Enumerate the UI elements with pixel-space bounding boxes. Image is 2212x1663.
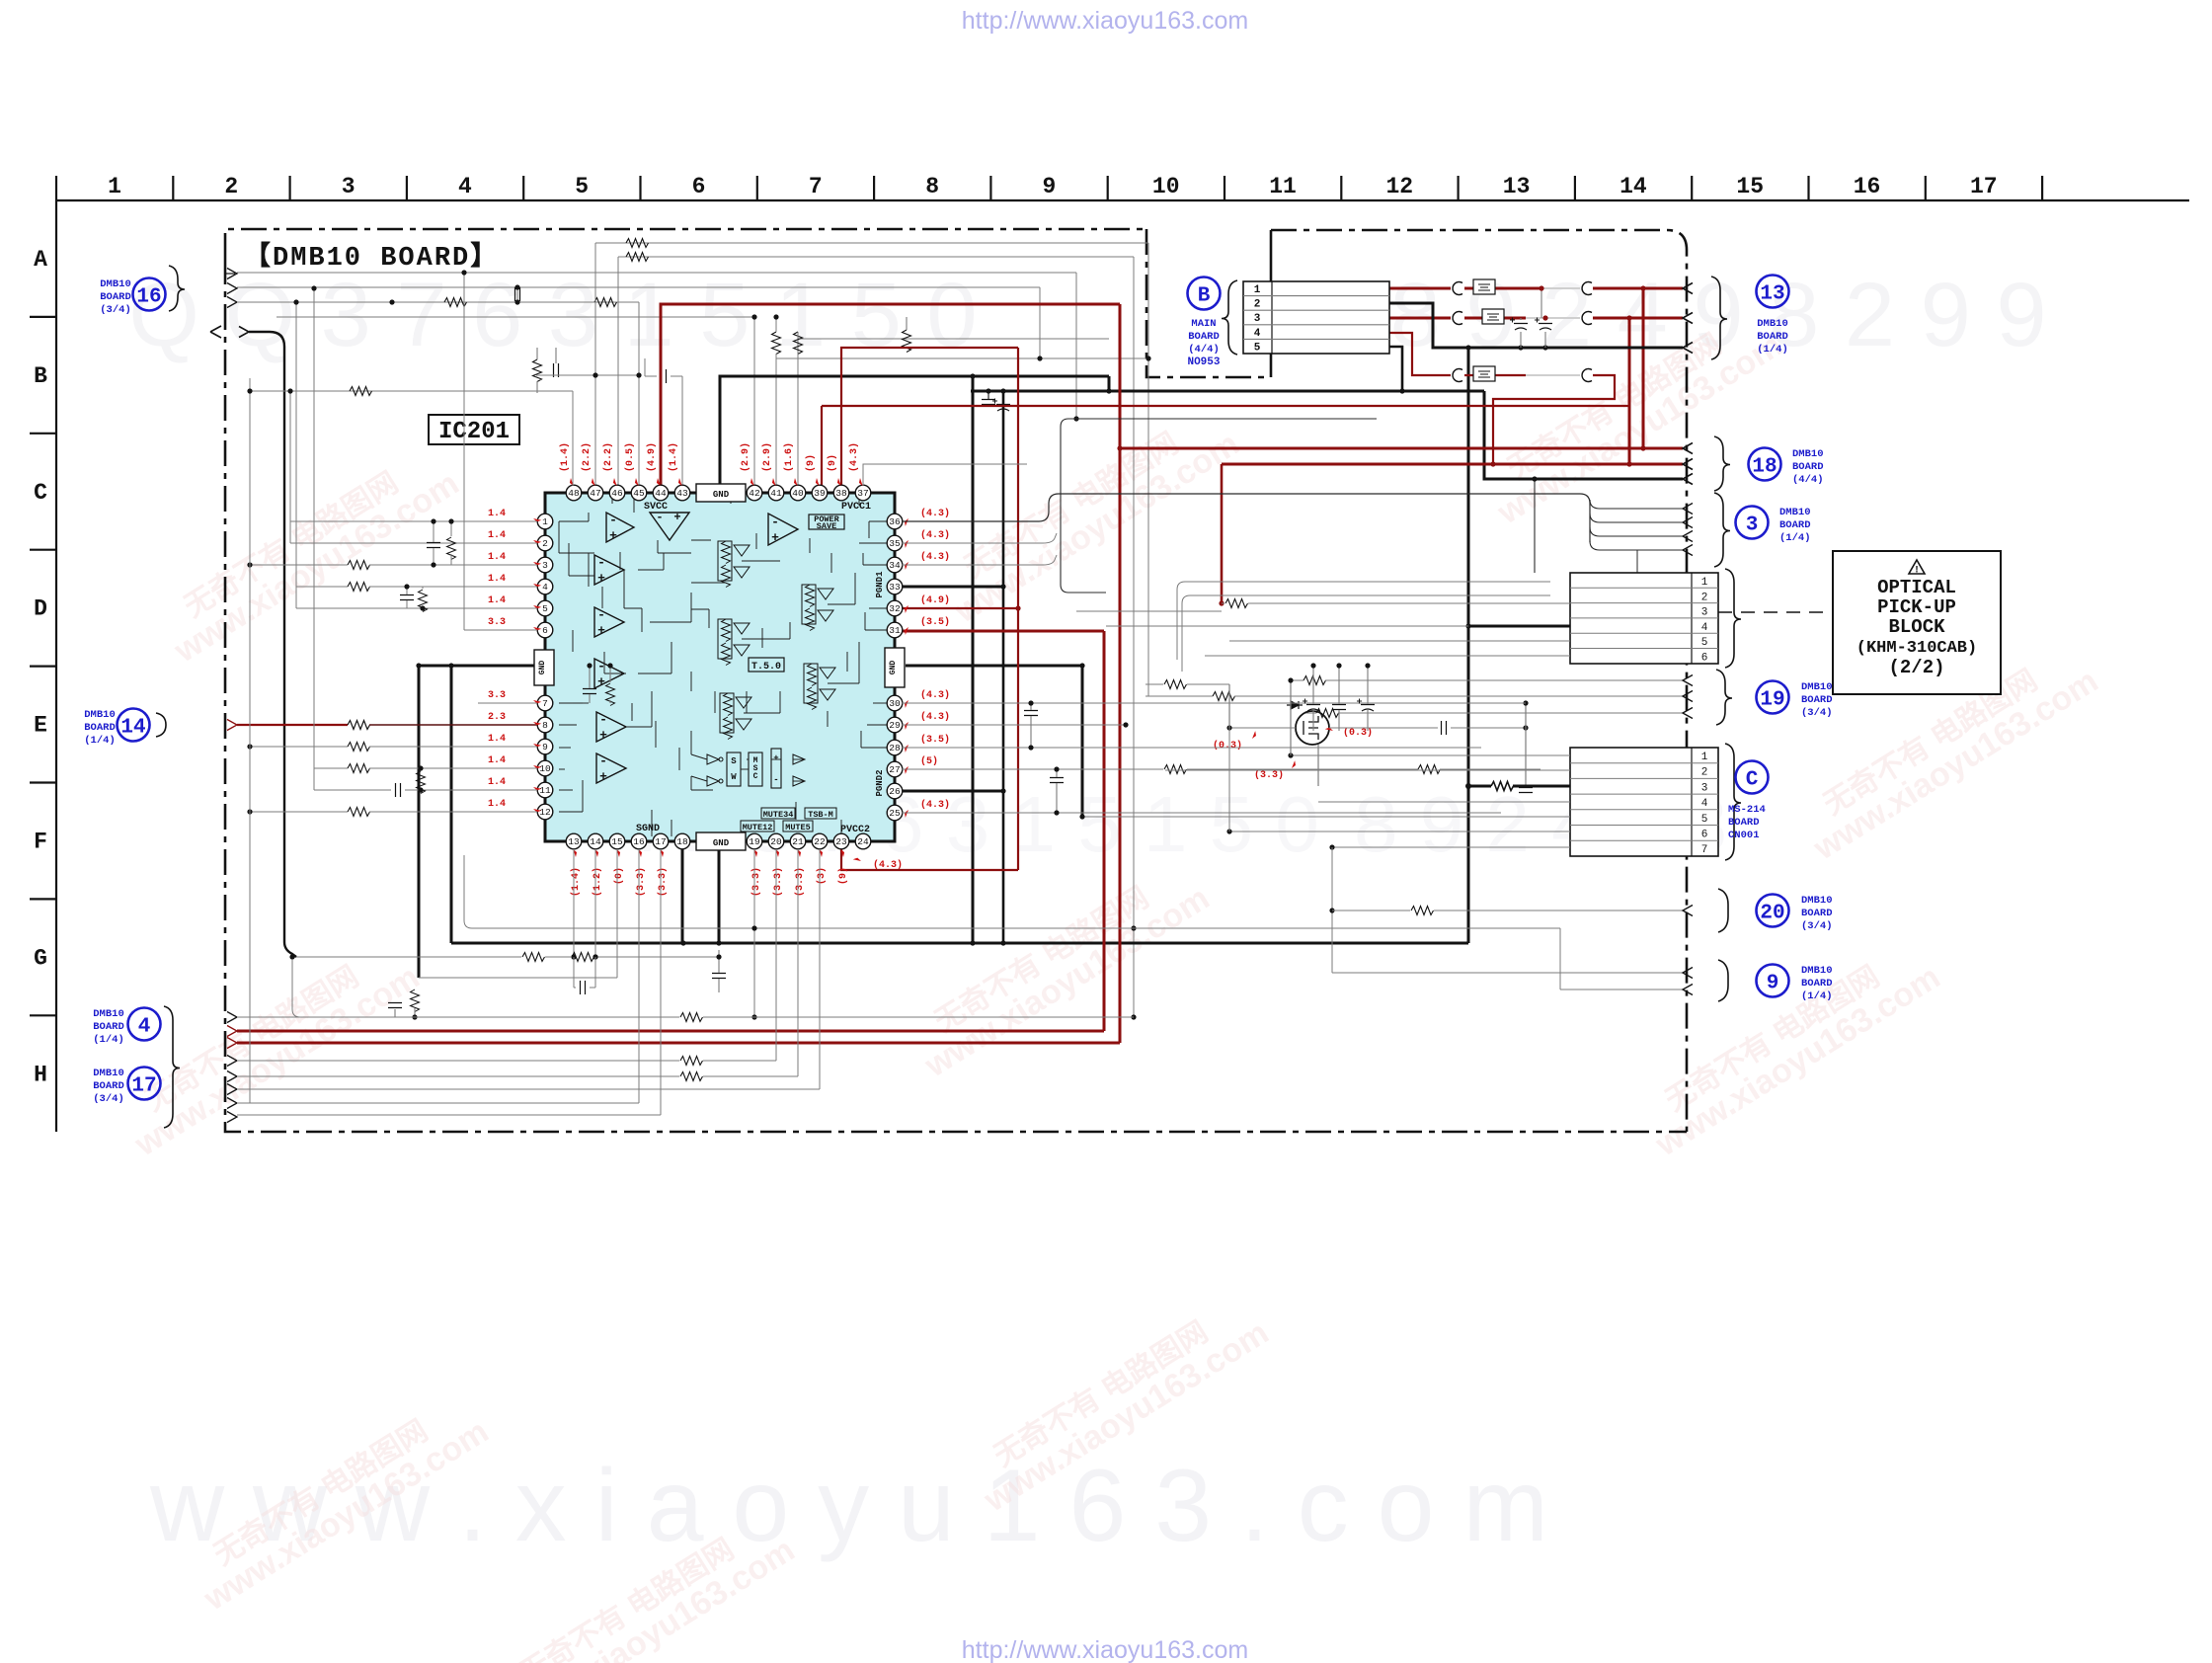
IC201 label box	[429, 415, 519, 444]
wire thick v1487 upper	[1467, 347, 1470, 350]
svg-text:http://www.xiaoyu163.com: http://www.xiaoyu163.com	[962, 1636, 1248, 1663]
svg-text:(4.3): (4.3)	[920, 799, 950, 811]
ferrite 13-2a	[1453, 312, 1462, 325]
gnd tab left	[534, 650, 554, 685]
svg-text:PICK-UP: PICK-UP	[1877, 596, 1956, 618]
svg-text:CN001: CN001	[1728, 830, 1760, 841]
svg-text:C: C	[34, 480, 47, 506]
svg-text:14: 14	[590, 836, 601, 847]
connector ref 4 circle	[128, 1008, 161, 1041]
wire bus8	[798, 338, 1109, 340]
svg-text:4: 4	[542, 582, 548, 593]
svg-text:17: 17	[1970, 174, 1998, 199]
svg-text:5: 5	[542, 603, 548, 614]
wire pin25	[902, 812, 1501, 814]
wire 14 entry	[227, 720, 237, 731]
svg-text:+: +	[597, 623, 605, 638]
svg-text:BOARD: BOARD	[1728, 817, 1760, 829]
svg-text:8: 8	[542, 720, 548, 731]
svg-text:GND: GND	[713, 838, 730, 848]
svg-text:http://www.xiaoyu163.com: http://www.xiaoyu163.com	[962, 7, 1248, 35]
wire v1561 thin	[1540, 288, 1542, 318]
svg-text:(3.3): (3.3)	[772, 867, 784, 897]
wire 7p row6	[1229, 831, 1570, 832]
wire col 294	[289, 391, 291, 543]
wire 19-1	[1291, 679, 1303, 681]
svg-text:39: 39	[814, 488, 826, 499]
svg-text:1.4: 1.4	[488, 734, 506, 745]
svg-text:20: 20	[1760, 903, 1784, 925]
wire red 14 line	[237, 724, 348, 726]
svg-text:-: -	[597, 607, 605, 622]
wire pin20 col	[775, 849, 777, 1061]
svg-text:BOARD: BOARD	[93, 1080, 124, 1092]
svg-text:2: 2	[542, 538, 548, 549]
svg-text:-: -	[609, 513, 617, 527]
wire pin4	[296, 586, 348, 588]
arrow 9	[1683, 968, 1693, 979]
svg-text:18: 18	[676, 836, 688, 847]
svg-text:(3/4): (3/4)	[100, 304, 131, 316]
svg-text:2: 2	[224, 174, 238, 199]
connector ref 18 brace	[1714, 436, 1730, 491]
connector ref 16 circle	[133, 278, 166, 311]
svg-text:29: 29	[889, 720, 901, 731]
wire top bus 4	[237, 286, 1040, 288]
svg-text:12: 12	[1385, 174, 1413, 199]
svg-text:A: A	[34, 247, 47, 273]
pin 9	[537, 739, 553, 754]
arrow 13-1	[1683, 283, 1693, 294]
wire thick v1503 18-bundle	[1484, 391, 1683, 479]
connector ref 19 brace	[1716, 670, 1732, 725]
svg-text:F: F	[34, 830, 47, 855]
pin 23	[833, 833, 849, 849]
svg-text:DMB10: DMB10	[1801, 965, 1833, 977]
arrow 20	[1683, 906, 1693, 916]
svg-text:(4.9): (4.9)	[646, 442, 658, 472]
svg-text:14: 14	[120, 717, 145, 740]
svg-text:+: +	[609, 528, 617, 543]
wire pin7	[478, 702, 537, 704]
wire 6p row6	[1205, 655, 1570, 657]
wire bus7	[776, 357, 1148, 359]
svg-text:44: 44	[655, 488, 667, 499]
svg-text:+: +	[771, 530, 779, 545]
svg-text:3: 3	[1746, 515, 1759, 537]
svg-text:BOARD: BOARD	[93, 1021, 124, 1033]
wire 7p row1	[1291, 754, 1570, 756]
svg-text:DMB10: DMB10	[1779, 507, 1811, 518]
wire red pin23 net	[841, 841, 1018, 870]
wire pin10	[314, 767, 348, 769]
wire col c1163	[1147, 243, 1149, 696]
wire pin3	[250, 564, 348, 566]
connector ref C circle	[1736, 761, 1769, 794]
svg-text:28: 28	[889, 743, 901, 753]
wire pin11	[314, 789, 391, 791]
resistor on bus2	[626, 253, 649, 262]
wire red 18-1	[1643, 447, 1683, 450]
svg-text:D: D	[34, 596, 47, 622]
wire 17 entry	[227, 1071, 237, 1082]
wire thick pin26	[902, 790, 1003, 793]
wire mosfet gate	[1229, 727, 1296, 729]
svg-text:+: +	[597, 571, 605, 586]
wire thick gnd top	[720, 376, 1109, 486]
bead box 13-1	[1473, 279, 1495, 294]
svg-text:(3/4): (3/4)	[93, 1093, 124, 1105]
svg-text:【DMB10 BOARD】: 【DMB10 BOARD】	[244, 241, 499, 274]
wire col pin41	[775, 358, 777, 486]
wire 4 entry red1	[227, 1026, 237, 1037]
resistor on bus1	[626, 239, 649, 248]
svg-text:13: 13	[1760, 283, 1784, 306]
svg-text:6: 6	[542, 625, 548, 636]
wire pin16 col	[638, 849, 640, 1103]
svg-text:(4/4): (4/4)	[1188, 344, 1220, 356]
wire red v1118	[1103, 631, 1106, 1031]
wire thick h396	[971, 390, 1484, 393]
wire col 300	[295, 302, 297, 608]
connector ref 17 circle	[128, 1068, 161, 1100]
wire red pin39 up	[821, 406, 823, 493]
resistor on bus5	[444, 298, 467, 307]
svg-text:1.4: 1.4	[488, 530, 506, 541]
svg-text:27: 27	[889, 764, 900, 775]
svg-text:23: 23	[835, 836, 847, 847]
wire pin1	[290, 520, 537, 522]
svg-text:45: 45	[633, 488, 645, 499]
wire 4 entry black	[227, 1012, 237, 1023]
resistor above pin41	[903, 330, 911, 353]
capacitor v1070	[1050, 778, 1064, 783]
svg-text:PVCC1: PVCC1	[841, 502, 871, 513]
arrow 13-2	[1683, 313, 1693, 324]
wire thick v1123	[1108, 376, 1111, 391]
wire pin9	[250, 746, 348, 748]
svg-text:BOARD: BOARD	[84, 722, 116, 734]
wire 19-3	[1303, 712, 1316, 714]
svg-text:4: 4	[1701, 798, 1708, 810]
pin 6	[537, 622, 553, 638]
wire col pin47	[594, 243, 596, 486]
svg-text:GND: GND	[889, 661, 898, 675]
wire red pin32 net	[902, 607, 1018, 609]
svg-text:5: 5	[1254, 342, 1261, 354]
svg-text:MUTE34: MUTE34	[763, 810, 794, 820]
svg-text:MUTE5: MUTE5	[785, 823, 811, 832]
wire red h411	[822, 405, 1629, 407]
wire col pin42	[753, 317, 755, 486]
connector CN 6pin box	[1570, 573, 1718, 664]
svg-text:(2.9): (2.9)	[761, 442, 773, 472]
svg-text:31: 31	[889, 625, 901, 636]
capacitor cluster h1030	[388, 1003, 402, 1008]
svg-text:PGND1: PGND1	[875, 571, 885, 598]
wire v1349	[1331, 847, 1333, 973]
svg-text:38: 38	[835, 488, 847, 499]
wire red h1044	[237, 1030, 1104, 1033]
svg-text:41: 41	[770, 488, 782, 499]
svg-text:12: 12	[539, 807, 551, 818]
wire 19-2	[1145, 695, 1213, 697]
wire v1307	[1290, 680, 1292, 755]
svg-text:3: 3	[342, 174, 355, 199]
svg-text:25: 25	[889, 808, 901, 819]
pin 24	[855, 833, 871, 849]
svg-text:3: 3	[1701, 607, 1708, 619]
svg-text:13: 13	[568, 836, 580, 847]
wire 6p row5	[1229, 640, 1570, 642]
svg-text:(3/4): (3/4)	[1801, 707, 1833, 719]
svg-text:(3.3): (3.3)	[657, 867, 669, 897]
wire 17 entry	[227, 1084, 237, 1095]
wire 17 entry	[227, 1056, 237, 1067]
wire pin30 long	[902, 702, 1526, 704]
wire h969	[296, 956, 521, 958]
svg-text:1: 1	[1254, 284, 1261, 296]
wire h693 resistor	[1145, 683, 1163, 685]
pin 31	[887, 622, 903, 638]
pin 18	[674, 833, 690, 849]
rect MUTE5	[783, 821, 813, 831]
svg-text:17: 17	[131, 1075, 156, 1098]
pin 36	[887, 514, 903, 529]
svg-text:(0.3): (0.3)	[1213, 740, 1242, 752]
wire 16-2 entry	[227, 283, 237, 294]
wire 16-1 entry	[227, 269, 237, 279]
pin 4	[537, 579, 553, 594]
pin 16	[631, 833, 647, 849]
svg-text:19: 19	[749, 836, 760, 847]
wire top bus 6	[276, 316, 754, 318]
left border line	[55, 200, 57, 1132]
resistor cluster above IC	[533, 359, 542, 382]
wire top bus 5	[237, 301, 639, 303]
svg-text:24: 24	[857, 836, 869, 847]
pin 39	[812, 485, 828, 501]
ruler ticks and numbers	[55, 176, 57, 200]
rect MUTE34	[761, 808, 795, 819]
svg-text:(4.9): (4.9)	[920, 594, 950, 606]
svg-text:4: 4	[1701, 622, 1708, 634]
pin 8	[537, 717, 553, 733]
wire pin29	[902, 724, 1126, 726]
svg-text:G: G	[34, 945, 47, 971]
wire h990	[419, 977, 617, 979]
svg-text:3.3: 3.3	[488, 690, 506, 701]
wire h1103	[237, 1088, 820, 1090]
svg-text:5: 5	[575, 174, 589, 199]
svg-text:+: +	[599, 728, 607, 743]
svg-text:10: 10	[1152, 174, 1180, 199]
pin 13	[566, 833, 582, 849]
svg-text:1: 1	[1701, 577, 1708, 589]
svg-text:8: 8	[925, 174, 939, 199]
wire v1580	[1559, 928, 1561, 990]
svg-text:4: 4	[1254, 328, 1261, 340]
pin 19	[747, 833, 762, 849]
svg-text:34: 34	[889, 560, 901, 571]
connector ref 14 brace	[156, 713, 166, 737]
wire h940	[464, 855, 1560, 928]
pin 37	[855, 485, 871, 501]
svg-text:(2.9): (2.9)	[740, 442, 751, 472]
svg-text:C: C	[753, 772, 758, 781]
resistor pair above pins 40-41	[772, 332, 781, 355]
pin 21	[790, 833, 806, 849]
junction dots B nets	[1465, 345, 1470, 350]
svg-text:40: 40	[792, 488, 804, 499]
svg-text:42: 42	[749, 488, 760, 499]
wire v296 corner	[292, 960, 300, 1017]
capacitor pair 13 area	[1514, 324, 1528, 331]
svg-text:GND: GND	[713, 490, 730, 500]
svg-text:BLOCK: BLOCK	[1888, 616, 1945, 638]
wire red 13-1 segment	[1389, 287, 1451, 290]
svg-text:BOARD: BOARD	[1801, 908, 1833, 919]
svg-text:11: 11	[1269, 174, 1297, 199]
svg-text:17: 17	[655, 836, 666, 847]
svg-text:6: 6	[1701, 830, 1708, 841]
wire 9 line2	[1560, 989, 1683, 990]
wire red pin38 up	[841, 348, 1018, 493]
pin 25	[887, 805, 903, 821]
rect T.5.0	[749, 658, 784, 672]
pin 7	[537, 695, 553, 711]
pin 10	[537, 760, 553, 776]
svg-text:MUTE12: MUTE12	[743, 823, 773, 832]
connector B brace	[1222, 280, 1237, 355]
resistor cluster r2	[806, 585, 815, 607]
connector ref 14 circle	[118, 709, 150, 742]
node entry pair B-row	[210, 326, 221, 338]
wire 7p row7	[1332, 846, 1570, 848]
wire red v1134	[1119, 304, 1122, 1043]
pin 2	[537, 535, 553, 551]
svg-text:(1/4): (1/4)	[1779, 532, 1811, 544]
svg-text:1: 1	[1701, 752, 1708, 763]
pin 32	[887, 600, 903, 616]
wire h1117	[237, 1102, 639, 1104]
svg-text:IC201: IC201	[438, 419, 510, 445]
wire red v1237 to LD	[1221, 464, 1224, 603]
wire stub row1 link	[1636, 550, 1638, 582]
svg-text:1.4: 1.4	[488, 799, 506, 810]
wire h1129	[237, 1114, 661, 1116]
wire h424 thin	[1068, 418, 1377, 420]
capacitor cluster pins4-5	[400, 595, 414, 600]
svg-text:(1.2): (1.2)	[592, 867, 603, 897]
svg-text:2.3: 2.3	[488, 712, 506, 723]
wire pin14 col	[594, 849, 596, 957]
connector ref 18 circle	[1749, 448, 1781, 481]
svg-text:33: 33	[889, 582, 901, 593]
wire 7p row4	[1318, 801, 1570, 803]
connector ref 13 brace	[1711, 277, 1727, 359]
wire 20 line	[1332, 910, 1410, 911]
svg-text:H: H	[34, 1062, 47, 1087]
wire thick h955	[451, 942, 1468, 945]
svg-text:35: 35	[889, 538, 901, 549]
svg-text:(1/4): (1/4)	[84, 735, 116, 747]
wire v1554	[1534, 479, 1536, 573]
svg-text:16: 16	[1854, 174, 1881, 199]
svg-text:32: 32	[889, 603, 901, 614]
wire thick v1487 long	[1467, 348, 1470, 943]
gnd tab top	[696, 484, 746, 502]
svg-text:9: 9	[542, 742, 548, 752]
svg-text:3: 3	[1254, 313, 1261, 325]
svg-text:18: 18	[1752, 456, 1777, 479]
junction dots gnd caps	[1310, 663, 1315, 668]
connector ref 20 circle	[1757, 895, 1789, 927]
wire top bus 2	[618, 256, 1134, 258]
svg-text:2: 2	[1701, 767, 1708, 779]
connector ref 3 circle	[1736, 507, 1769, 539]
connector ref 9 circle	[1757, 965, 1789, 997]
svg-text:MAIN: MAIN	[1191, 318, 1216, 330]
svg-text:(1.6): (1.6)	[783, 442, 795, 472]
svg-text:(1.4): (1.4)	[668, 442, 679, 472]
svg-text:3: 3	[1701, 782, 1708, 794]
junction dots spine	[680, 940, 685, 945]
board border dash-dot	[225, 229, 1687, 1132]
svg-text:NO953: NO953	[1187, 356, 1220, 368]
capacitor cluster pin7	[583, 689, 596, 694]
svg-text:DMB10: DMB10	[93, 1008, 124, 1020]
svg-text:(3): (3)	[816, 867, 828, 885]
pin 33	[887, 579, 903, 594]
wire gnd bottom col thick	[718, 850, 721, 943]
op-amp A5	[594, 607, 624, 637]
svg-text:Q Q 3 7 6 3 1 5 1 5 0: Q Q 3 7 6 3 1 5 1 5 0	[128, 265, 977, 365]
gnd tab bottom	[696, 832, 746, 850]
svg-text:3.3: 3.3	[488, 617, 506, 628]
connector 6pin brace	[1725, 569, 1741, 668]
wire 7p row3 thick	[1468, 785, 1491, 788]
capacitor cluster right gnd	[1306, 705, 1320, 712]
wire red h454	[1120, 447, 1643, 450]
connector ref 9 brace	[1718, 960, 1728, 1001]
pin 41	[768, 485, 784, 501]
pin 34	[887, 557, 903, 573]
svg-text:(4.3): (4.3)	[873, 859, 903, 871]
wire 3-bundle fan	[1590, 500, 1683, 509]
wire stub cluster	[536, 381, 538, 393]
svg-text:20: 20	[770, 836, 782, 847]
diode D1	[1287, 701, 1303, 709]
wire red 13-2 segment	[1389, 317, 1451, 320]
svg-text:46: 46	[611, 488, 623, 499]
svg-text:(4.3): (4.3)	[920, 689, 950, 701]
pin 12	[537, 804, 553, 820]
svg-text:DMB10: DMB10	[1757, 318, 1788, 330]
wire red 18-2	[1222, 463, 1683, 466]
svg-text:36: 36	[889, 516, 901, 527]
pin 22	[812, 833, 828, 849]
svg-text:7: 7	[809, 174, 823, 199]
svg-text:13: 13	[1503, 174, 1531, 199]
ferrite B4a	[1453, 369, 1462, 382]
svg-text:2: 2	[1701, 592, 1708, 603]
svg-text:30: 30	[889, 698, 901, 709]
wire 17 entry	[227, 1098, 237, 1109]
pin 38	[833, 485, 849, 501]
svg-text:(4.3): (4.3)	[920, 711, 950, 723]
arrows 19	[1683, 675, 1693, 686]
